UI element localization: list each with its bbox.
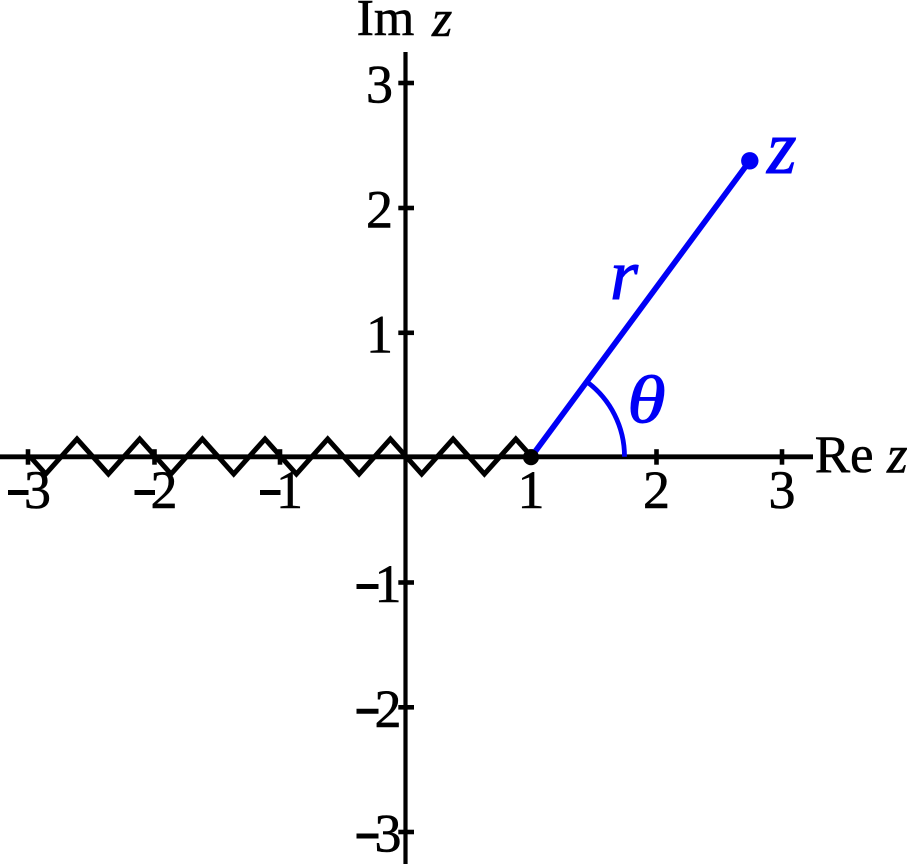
- y-axis (imaginary axis): [403, 52, 407, 864]
- svg-text:3: 3: [375, 804, 402, 864]
- tick y=2: [398, 206, 414, 211]
- x-axis label -1 minus lengthener: [260, 490, 281, 495]
- tick y=-3: [398, 830, 414, 835]
- svg-text:2: 2: [366, 180, 393, 240]
- tick x=2: [654, 449, 659, 465]
- svg-text:r: r: [610, 235, 639, 315]
- svg-text:z: z: [431, 0, 452, 48]
- tick x=-2: [152, 449, 157, 465]
- angle arc theta: [587, 382, 625, 457]
- tick x=3: [780, 449, 785, 465]
- tick x=-1: [278, 449, 283, 465]
- svg-text:1: 1: [518, 460, 545, 520]
- svg-text:2: 2: [643, 460, 670, 520]
- tick x=-3: [26, 449, 31, 465]
- tick y=-1: [398, 580, 414, 585]
- branch cut zigzag from z=-3 to z=1: [30, 439, 532, 474]
- tick y=1: [398, 330, 414, 335]
- svg-text:z: z: [766, 106, 797, 190]
- branch point dot at z=1: [523, 449, 539, 465]
- svg-text:2: 2: [375, 679, 402, 739]
- tick y=-2: [398, 705, 414, 710]
- tick y=3: [398, 81, 414, 86]
- svg-text:z: z: [886, 427, 907, 485]
- radius line r from branch point to z: [532, 161, 750, 457]
- svg-text:1: 1: [375, 554, 402, 614]
- svg-text:θ: θ: [627, 362, 665, 437]
- svg-text:Im: Im: [357, 0, 415, 47]
- x-axis label -3 minus lengthener: [8, 490, 29, 495]
- x-axis label -2 minus lengthener: [135, 490, 156, 495]
- y-axis label -1 minus lengthener: [357, 584, 379, 589]
- svg-text:1: 1: [366, 304, 393, 364]
- svg-text:3: 3: [769, 460, 796, 520]
- y-axis label -2 minus lengthener: [357, 709, 379, 714]
- tick x=1: [529, 449, 534, 465]
- point z dot: [741, 152, 758, 169]
- y-axis label -3 minus lengthener: [357, 834, 379, 839]
- svg-text:3: 3: [366, 55, 393, 115]
- x-axis (real axis): [0, 454, 813, 459]
- svg-text:Re: Re: [815, 426, 874, 484]
